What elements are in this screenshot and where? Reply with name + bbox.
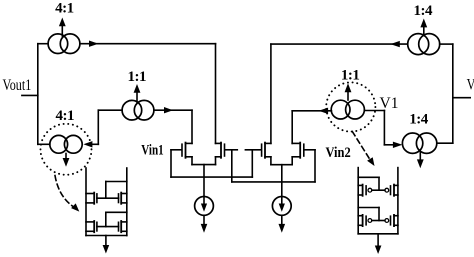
bottom bar	[358, 233, 398, 235]
svg-text:Vin1: Vin1	[141, 143, 163, 159]
wire M2 input from M3 node	[83, 110, 122, 147]
tail arrow	[105, 236, 107, 246]
transistor T2 (left pair, right)	[216, 143, 238, 158]
current mirror M4 1:4 top-right	[408, 19, 440, 55]
transistor T3 (right pair, left)	[245, 143, 271, 158]
wire M6 to right rail	[437, 142, 453, 144]
tail arrow	[377, 234, 379, 246]
upper gate link	[97, 197, 119, 199]
right pair common source and tail	[271, 157, 292, 197]
svg-text:V1: V1	[380, 95, 399, 112]
current mirror M6 1:4 lower-right	[402, 133, 436, 168]
right stack (PMOS cascode mirror detail)	[358, 168, 398, 254]
current mirror M1 4:1 top-left	[48, 18, 80, 54]
left rail	[85, 168, 87, 236]
wire right rail vertical Vout2 node	[452, 44, 454, 143]
wire B (Vin2 net cross-couple)	[232, 150, 315, 182]
lower-right transistor QH	[385, 219, 389, 223]
svg-text:1:1: 1:1	[341, 67, 360, 83]
lower-right transistor QD	[118, 222, 120, 231]
wire M1 output to T2 drain (top horizontal)	[80, 41, 216, 144]
lower gate link	[372, 220, 385, 222]
upper-left transistor QE	[358, 184, 362, 186]
current source I1 (left tail)	[195, 197, 214, 233]
bottom bar	[86, 235, 127, 237]
svg-text:Vout1: Vout1	[3, 77, 32, 94]
wire M5 output V1 to M6 input	[364, 111, 402, 149]
left stack (NMOS cascode mirror detail)	[86, 168, 127, 254]
lower gate link	[97, 226, 119, 228]
upper-right transistor QF	[385, 188, 389, 192]
wire left rail vertical Vout1 node	[37, 44, 39, 145]
dashed arrow from M5 to right stack	[352, 132, 374, 167]
upper gate link	[372, 189, 385, 191]
svg-text:1:1: 1:1	[128, 69, 147, 85]
lower-left transistor QC	[86, 221, 94, 223]
svg-text:4:1: 4:1	[56, 108, 75, 124]
wire A (Vin1 net cross-couple)	[171, 150, 252, 177]
transistor T4 (right pair, Vin2)	[292, 143, 315, 158]
transistor T1 (left pair, Vin1)	[171, 143, 192, 158]
right rail	[397, 168, 399, 234]
svg-text:1:4: 1:4	[414, 3, 434, 19]
svg-text:Vin2: Vin2	[326, 145, 351, 161]
terminal Vout2 stub	[453, 97, 470, 99]
current mirror M3 4:1 dotted left	[38, 135, 82, 166]
svg-text:1:4: 1:4	[409, 111, 429, 127]
wire M4 right to right rail	[440, 43, 453, 45]
dotted circle around M3	[41, 124, 92, 175]
dotted circle around M5	[326, 82, 375, 131]
right rail	[126, 168, 128, 236]
wire M4 output to T3 drain (top-right horizontal)	[271, 41, 408, 143]
upper-left transistor QA	[86, 193, 94, 195]
left pair common source and tail	[192, 157, 216, 197]
wire T4 drain to M5	[292, 108, 331, 144]
current source I2 (right tail)	[272, 197, 291, 233]
terminal Vout1 stub	[22, 94, 38, 96]
svg-text:4:1: 4:1	[55, 0, 74, 16]
svg-text:Vout2: Vout2	[467, 77, 474, 94]
wire M1 left to left rail	[38, 43, 48, 45]
current mirror M5 1:1 dotted right	[331, 83, 364, 119]
upper-right transistor QB	[118, 194, 120, 203]
lower-left transistor QG	[358, 215, 362, 217]
dashed arrow from M3 to left stack	[55, 176, 79, 212]
current mirror M2 1:1 left	[122, 84, 154, 120]
left rail	[357, 168, 359, 234]
wire M2 output to T1 drain	[154, 107, 192, 143]
